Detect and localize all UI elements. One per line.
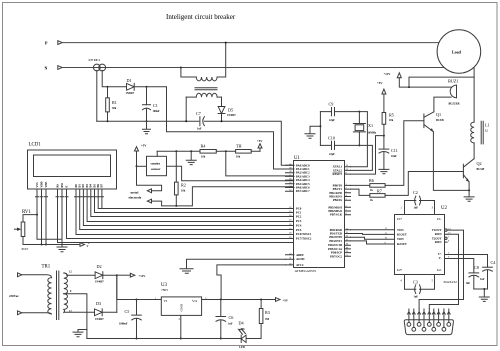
transistor Q2 BC549 <box>462 164 464 178</box>
svg-text:+5V: +5V <box>377 81 383 85</box>
svg-text:D5: D5 <box>93 183 96 187</box>
U1 right pin labels <box>328 165 343 259</box>
connector DB9 <box>404 320 453 335</box>
port metal electrode 2 <box>147 199 151 203</box>
svg-text:D7: D7 <box>101 183 104 187</box>
resistor R3 <box>259 309 263 324</box>
transformer T core <box>195 88 217 90</box>
U2 left pin wires from U1 PD <box>351 229 395 231</box>
U1 left pin numbers <box>289 163 292 266</box>
+12V arrow right <box>130 273 135 277</box>
ground Q emitters <box>464 190 474 201</box>
svg-text:10k: 10k <box>181 190 186 193</box>
svg-text:AGND: AGND <box>296 257 305 261</box>
node D2 out <box>116 274 118 276</box>
svg-text:230Vac: 230Vac <box>9 294 19 298</box>
port 230Vac bottom <box>18 311 22 315</box>
svg-text:1uF: 1uF <box>414 296 419 299</box>
ground below C11 <box>379 169 389 173</box>
svg-text:BC549: BC549 <box>436 119 444 122</box>
node R1 bottom <box>107 120 109 122</box>
svg-text:RW: RW <box>61 183 64 188</box>
wire U3 GND to rail <box>180 315 182 338</box>
ground AGND <box>180 259 286 273</box>
ground below C4 <box>479 289 489 301</box>
wire XTAL1 <box>351 112 368 167</box>
+5V arrow right <box>276 298 281 302</box>
TR1 secondary winding <box>64 273 68 294</box>
svg-text:16MHz: 16MHz <box>368 131 377 134</box>
svg-text:PD7/OC2: PD7/OC2 <box>330 254 342 258</box>
wire Q1 collector to buzzer <box>434 97 451 112</box>
svg-text:Load: Load <box>452 49 462 54</box>
svg-text:V: V <box>87 245 89 248</box>
ground on sensor row <box>186 151 196 164</box>
wire V+ to C4 <box>445 255 488 268</box>
svg-text:1uF: 1uF <box>197 127 202 130</box>
wire electrode2 to U1 PA6 <box>152 187 294 206</box>
wire V- to C8 <box>445 259 474 273</box>
svg-text:C2-: C2- <box>437 268 442 272</box>
svg-text:+12V: +12V <box>384 72 392 76</box>
svg-text:22pF: 22pF <box>329 153 335 156</box>
capacitor C1 <box>146 87 148 105</box>
DB9 pin stubs with arrows <box>408 309 451 327</box>
wire Q1 emitter down <box>433 132 469 191</box>
svg-text:D4: D4 <box>239 321 245 326</box>
svg-text:D2: D2 <box>82 183 85 187</box>
U1 right pin numbers <box>346 164 349 257</box>
svg-text:R3: R3 <box>265 310 270 315</box>
LCD pin number ticks <box>36 196 104 198</box>
svg-text:+5V: +5V <box>257 139 263 143</box>
wire LCD RW drop to ground <box>61 189 63 247</box>
svg-text:POT: POT <box>22 247 29 251</box>
svg-text:+5V: +5V <box>283 299 289 303</box>
node C1 bottom <box>146 120 148 122</box>
svg-text:C10: C10 <box>328 136 335 141</box>
capacitor C6 <box>216 300 226 317</box>
wire C9-C10 left rail <box>319 112 321 146</box>
svg-text:CT 10:1: CT 10:1 <box>89 58 101 62</box>
relay coil L1 <box>473 77 475 122</box>
node R2 tap <box>175 150 177 152</box>
svg-text:C7: C7 <box>196 111 201 116</box>
svg-text:R1OUT: R1OUT <box>397 232 407 236</box>
svg-text:C1-: C1- <box>437 217 442 221</box>
ground for crystal caps <box>305 126 320 138</box>
wire R6 to Q1 base <box>385 121 424 186</box>
thermistor TH <box>236 150 252 154</box>
wire AVCC riser to +5V rail <box>217 265 286 300</box>
wire TH node to U1 PA3 <box>226 151 294 176</box>
svg-text:PC6/TOSC1: PC6/TOSC1 <box>296 232 312 236</box>
svg-text:V-: V- <box>439 256 442 260</box>
svg-text:PB7/SCK: PB7/SCK <box>330 213 343 217</box>
capacitor C5 <box>132 300 142 316</box>
wire sensor row <box>157 150 260 152</box>
svg-text:C5: C5 <box>125 309 130 314</box>
svg-text:R1: R1 <box>112 100 117 105</box>
svg-text:C1: C1 <box>153 103 158 108</box>
svg-text:VO: VO <box>192 299 198 303</box>
svg-text:D2: D2 <box>97 264 102 269</box>
svg-text:PC3: PC3 <box>296 219 302 223</box>
svg-text:D1: D1 <box>79 183 82 187</box>
svg-text:22pF: 22pF <box>329 119 335 122</box>
svg-text:1000uF: 1000uF <box>119 323 128 326</box>
svg-text:U2: U2 <box>441 206 448 211</box>
wire XTAL2 <box>351 145 373 170</box>
+5V arrow right (LCD VDD) <box>80 243 85 247</box>
wire D4 to R3 <box>246 324 261 339</box>
U1 left pin labels <box>296 163 312 267</box>
ground below RW <box>57 247 67 252</box>
svg-text:PC7/TOSC2: PC7/TOSC2 <box>296 236 312 240</box>
resistor R1 <box>107 87 109 121</box>
resistor R2 <box>175 151 177 206</box>
diode D1 <box>108 86 127 88</box>
svg-text:VEE: VEE <box>45 182 48 188</box>
transformer T secondary <box>186 96 196 98</box>
svg-text:D3: D3 <box>86 183 89 187</box>
svg-text:10k: 10k <box>236 156 241 159</box>
wire smoke left pin <box>137 165 147 167</box>
svg-text:MAX232: MAX232 <box>444 280 458 284</box>
svg-text:PA7/ADC7: PA7/ADC7 <box>296 189 310 193</box>
wire POT line to +5V <box>23 244 80 246</box>
wire LCD VSS drop <box>37 189 62 239</box>
svg-text:C2+: C2+ <box>397 268 403 272</box>
svg-text:7805: 7805 <box>161 288 168 292</box>
svg-text:AREF: AREF <box>296 253 304 257</box>
svg-text:D4: D4 <box>90 183 93 187</box>
svg-text:BC549: BC549 <box>477 168 485 171</box>
port metal electrode 1 <box>147 189 151 193</box>
svg-text:1N4007: 1N4007 <box>95 318 104 321</box>
svg-text:C9: C9 <box>329 102 334 107</box>
ground centre tap <box>73 330 87 337</box>
+5V arrow right of TH <box>259 148 261 151</box>
svg-text:BUZZER: BUZZER <box>449 103 460 106</box>
svg-text:RS: RS <box>56 183 59 187</box>
port 230Vac top <box>18 273 22 277</box>
wire C8-C4 bottom join <box>474 288 488 290</box>
node D1 out <box>146 86 148 88</box>
diode D5 <box>221 97 223 106</box>
crystal X1 <box>358 111 360 113</box>
svg-text:TR1: TR1 <box>42 265 51 270</box>
svg-text:R6: R6 <box>369 178 374 183</box>
wire CT bottom rail <box>97 121 294 165</box>
svg-text:RESET: RESET <box>333 172 343 176</box>
node TH left <box>225 150 227 152</box>
svg-text:Inteligent circuit breaker: Inteligent circuit breaker <box>166 13 236 21</box>
wire R7 to Q2 base <box>385 172 463 196</box>
svg-text:PC4: PC4 <box>296 224 302 228</box>
wire D1 out to right and down <box>147 87 294 169</box>
wire secondary left down <box>185 97 187 121</box>
U1 left pin stubs <box>286 165 295 265</box>
svg-text:VSS: VSS <box>36 182 39 188</box>
svg-text:D3: D3 <box>96 301 101 306</box>
svg-text:TH: TH <box>236 144 242 149</box>
wire D3 joins D2 <box>116 275 118 312</box>
svg-text:C1+: C1+ <box>397 217 403 221</box>
svg-text:1N4007: 1N4007 <box>95 280 104 283</box>
ground below C1 <box>143 121 151 134</box>
wire rectifier to U3 <box>117 275 162 299</box>
svg-text:Q1: Q1 <box>436 112 441 117</box>
wire P line <box>62 42 438 44</box>
resistor R5 <box>382 113 386 125</box>
wire smoke top pin <box>156 151 158 156</box>
svg-text:10k: 10k <box>201 156 206 159</box>
resistor R4 <box>200 150 216 154</box>
U2 right pin stubs with bubbles <box>445 229 447 231</box>
transformer T primary <box>180 67 182 69</box>
svg-text:R2: R2 <box>181 183 186 188</box>
load circle <box>437 30 481 74</box>
svg-text:R7: R7 <box>377 189 382 194</box>
svg-text:1N4007: 1N4007 <box>126 92 135 95</box>
svg-text:PB4/SS: PB4/SS <box>333 198 343 202</box>
svg-text:R5: R5 <box>389 113 394 118</box>
svg-text:LCD1: LCD1 <box>29 143 42 148</box>
svg-text:BUZ1: BUZ1 <box>448 79 458 84</box>
wire +12V to relay <box>409 77 474 87</box>
wire RESET <box>351 136 384 175</box>
svg-text:N: N <box>45 66 48 71</box>
svg-text:C8: C8 <box>474 265 479 270</box>
svg-text:T1IN: T1IN <box>397 228 404 232</box>
wire U3 VO rail <box>202 299 276 301</box>
svg-text:+12V: +12V <box>139 274 147 278</box>
svg-text:smoke: smoke <box>151 162 161 166</box>
svg-text:1N4007: 1N4007 <box>227 114 236 117</box>
svg-text:AVCC: AVCC <box>296 263 304 267</box>
svg-text:D1: D1 <box>127 78 132 83</box>
transistor Q1 BC549 <box>423 114 425 128</box>
wire smoke right pin to U1 PA4 <box>167 166 294 181</box>
svg-text:X1: X1 <box>368 123 373 128</box>
node C5 top <box>136 299 138 301</box>
wire Q2 emitter to ground <box>468 182 470 191</box>
svg-text:+5V: +5V <box>141 144 147 148</box>
svg-text:1uF: 1uF <box>414 207 419 210</box>
wire LCD data bundle <box>58 189 286 243</box>
svg-text:C3: C3 <box>413 280 418 285</box>
svg-text:100uF: 100uF <box>153 110 161 113</box>
svg-text:E: E <box>65 186 68 188</box>
svg-text:1k: 1k <box>370 199 373 202</box>
svg-text:ATMEGA8535: ATMEGA8535 <box>295 269 317 273</box>
svg-text:PC2: PC2 <box>296 215 302 219</box>
wire load to relay <box>473 67 475 77</box>
svg-text:C11: C11 <box>391 148 398 153</box>
wire R1IN to DB9 pin3 <box>429 234 458 309</box>
svg-text:C6: C6 <box>229 315 234 320</box>
TR1 core <box>57 271 59 320</box>
svg-text:R2OUT: R2OUT <box>397 242 407 246</box>
svg-text:390: 390 <box>265 318 270 321</box>
svg-text:1uF: 1uF <box>480 278 485 281</box>
node ground tap <box>190 150 192 152</box>
wire N line <box>62 67 443 69</box>
capacitor C11 <box>379 148 389 150</box>
wire CT secondary right <box>102 70 107 86</box>
TR1 primary winding <box>22 275 52 278</box>
svg-text:T2IN: T2IN <box>397 237 404 241</box>
wire T1OUT to DB9 pin2 <box>419 230 463 309</box>
wire bottom rail <box>87 338 241 340</box>
svg-text:1nF: 1nF <box>228 322 233 325</box>
svg-text:GND: GND <box>180 303 184 311</box>
wire LCD VDD drop <box>41 189 43 245</box>
svg-text:C2: C2 <box>413 190 418 195</box>
svg-text:D5: D5 <box>228 108 233 113</box>
smoke sensor box <box>147 156 167 175</box>
svg-text:Q2: Q2 <box>477 161 482 166</box>
svg-text:1k: 1k <box>370 189 373 192</box>
svg-text:10k: 10k <box>389 119 394 122</box>
capacitor C7 (series in rail) <box>199 117 201 126</box>
svg-text:D0: D0 <box>75 183 78 187</box>
svg-text:VDD: VDD <box>40 181 43 187</box>
U2 pin labels <box>397 217 407 272</box>
svg-text:sensor: sensor <box>151 167 161 171</box>
wire CT secondary left <box>96 70 98 121</box>
svg-text:30k: 30k <box>112 107 117 110</box>
svg-text:electrode: electrode <box>129 196 142 200</box>
svg-text:L1: L1 <box>485 123 490 128</box>
svg-text:1uF: 1uF <box>466 282 471 285</box>
svg-text:D6: D6 <box>97 183 100 187</box>
wire electrode1 to +5V <box>137 166 162 191</box>
U1 right pin stubs <box>345 167 351 257</box>
svg-text:10uF: 10uF <box>391 155 397 158</box>
wire LCD VEE drop <box>45 189 47 245</box>
svg-text:LED: LED <box>239 346 245 349</box>
svg-text:metal: metal <box>131 190 139 194</box>
svg-text:R2IN: R2IN <box>435 240 443 244</box>
node R1 top junction <box>107 86 109 88</box>
